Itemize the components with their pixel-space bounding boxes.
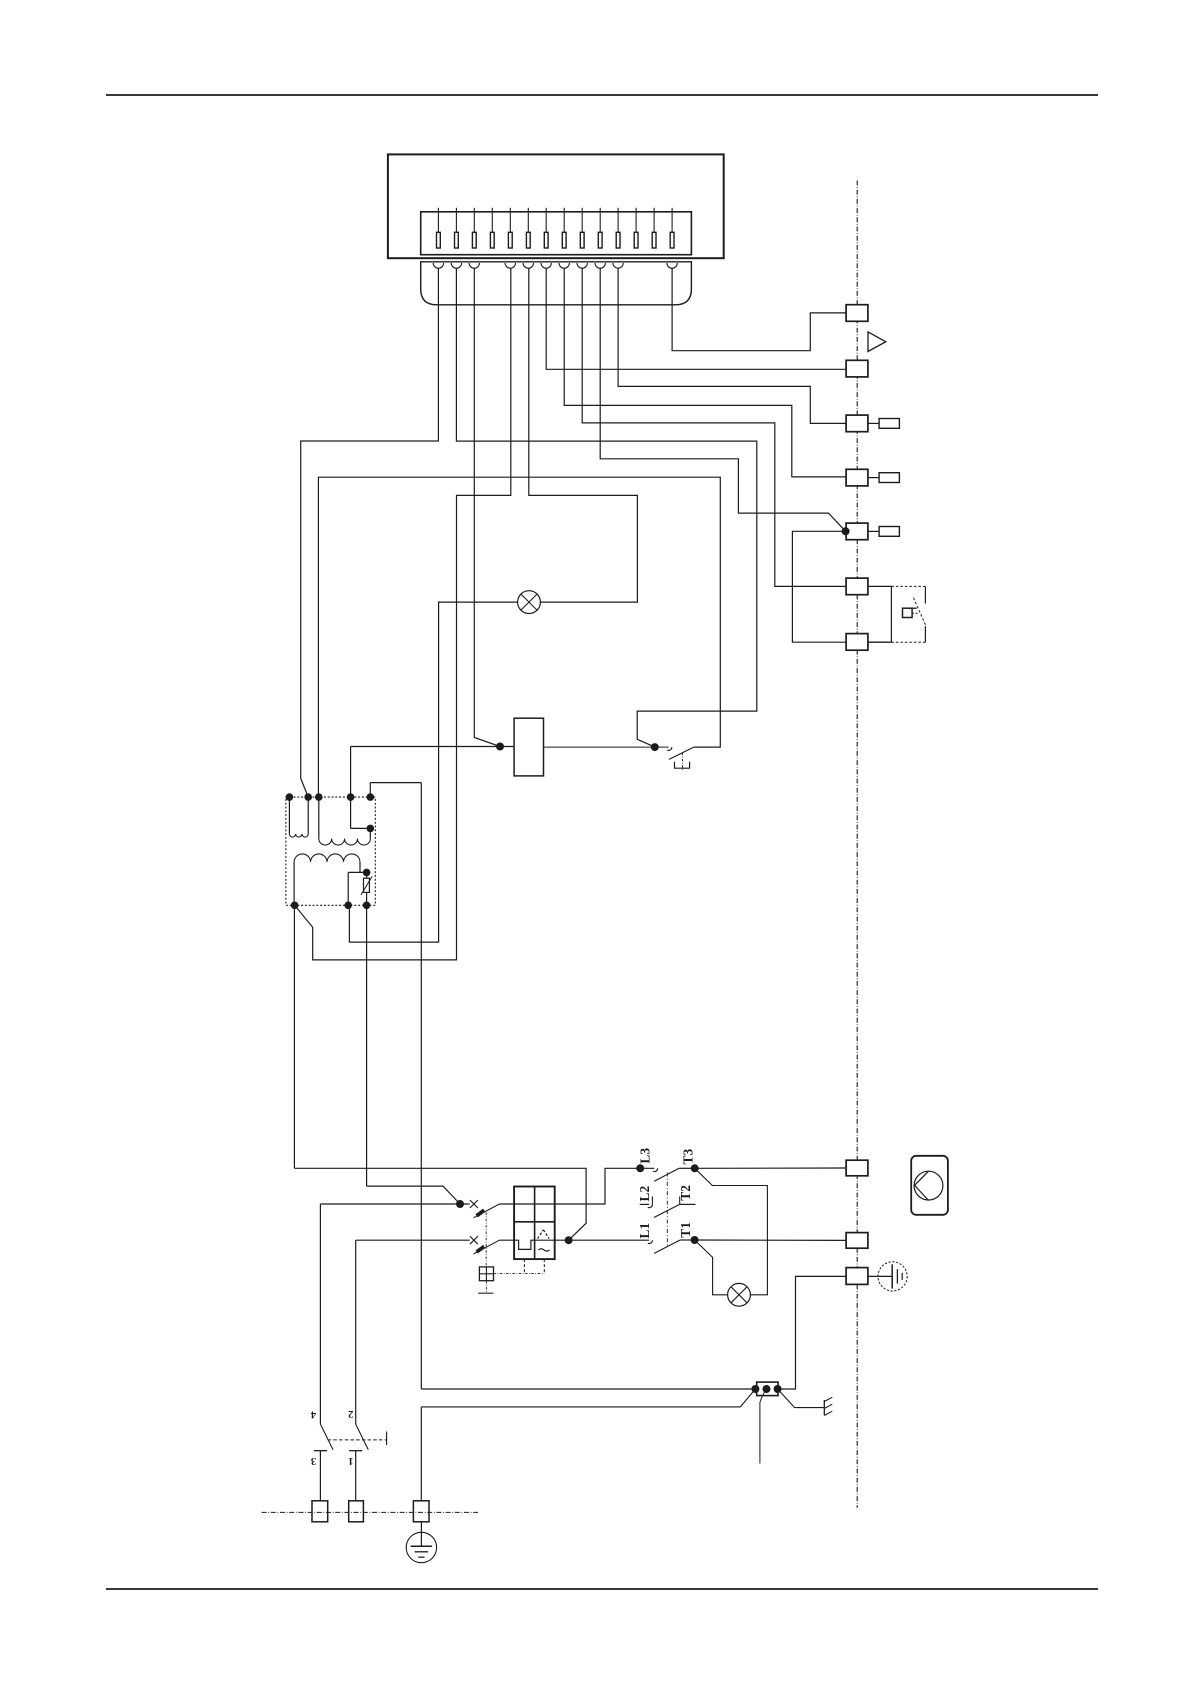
door plunger stem — [478, 1281, 493, 1294]
wire X5 to X7 link — [792, 531, 846, 642]
protective earth symbol (plug) — [406, 1532, 436, 1562]
thermal cutout pivot lead — [318, 477, 720, 797]
transformer primary winding (aux) — [289, 797, 308, 837]
transformer node (350.6,797.1) — [347, 793, 355, 801]
wire w6 (pin7 to terminal X2) — [546, 268, 845, 369]
plug axis line (dash-dot) — [262, 1511, 478, 1513]
wire lamp E1 return — [349, 602, 517, 942]
control box divider vertical — [534, 1187, 536, 1260]
terminal X3 — [846, 415, 868, 432]
plug terminal P2 — [349, 1501, 364, 1522]
svg-text:4: 4 — [310, 1409, 316, 1420]
wire w10 (pin11 to terminal X3) — [618, 268, 846, 423]
svg-text:L3: L3 — [637, 1148, 652, 1164]
transformer T1 dashed enclosure — [286, 797, 375, 905]
control box divider horizontal — [514, 1221, 555, 1223]
transformer bottom lead down — [293, 905, 295, 1168]
varistor RV1 — [361, 872, 372, 905]
interlock S4 lower lead — [355, 1451, 357, 1501]
wire w1 (pin1 to transformer primary) — [301, 268, 439, 797]
terminal strip pins 1-14 — [437, 208, 675, 248]
svg-text:L2: L2 — [637, 1185, 652, 1201]
wire w4 (pin5 to transformer return) — [295, 268, 511, 960]
microswitch S1 output to L3 — [499, 1168, 636, 1204]
contact L2 stub — [640, 1196, 653, 1207]
terminal X7 — [846, 634, 868, 651]
chassis ground — [824, 1397, 832, 1415]
varistor lead down — [366, 905, 368, 1186]
microswitch S2 contact cross — [470, 1236, 478, 1244]
transformer node (366.6,905.3) — [363, 902, 371, 910]
interlock S3 lower lead — [319, 1451, 321, 1501]
thermal cutout sensing cup — [675, 762, 690, 768]
transformer node (289.4,797.1) — [286, 793, 294, 801]
thermal cutout fixed contact — [655, 747, 672, 750]
junction dot relay feed — [496, 743, 504, 751]
door switch block — [757, 1382, 778, 1396]
wire w8 (pin9 to terminal X6) — [582, 268, 845, 586]
relay feed vertical — [350, 747, 352, 798]
wire T3 to terminal — [695, 1167, 846, 1169]
microswitch S2 blade — [474, 1240, 500, 1254]
transformer node (294.6,905.3) — [291, 902, 299, 910]
wire cook lamp to T1 — [695, 1240, 728, 1295]
terminal X5 — [846, 523, 868, 540]
pressure switch blade — [912, 598, 926, 627]
microswitch S2 line — [356, 1239, 470, 1241]
wire w3 (pin3 to relay node) — [474, 268, 500, 746]
interlock link (dashed) — [328, 1432, 387, 1446]
earth terminal lead — [868, 1275, 892, 1277]
wire T1 to terminal — [695, 1239, 847, 1241]
wire relay K1 to thermal cutout — [544, 746, 655, 748]
pressure switch dashed box — [891, 586, 925, 642]
door plunger symbol — [479, 1267, 493, 1281]
vertical bus to door switch — [420, 783, 422, 1389]
plug terminal PE — [413, 1501, 429, 1522]
contact L1 fixed lead hook — [648, 1240, 653, 1243]
fan motor M1 — [911, 1156, 948, 1215]
door switch probe stub — [760, 1389, 767, 1464]
transformer node (348.2,905.3) — [344, 902, 352, 910]
transformer primary winding (main) — [319, 797, 371, 845]
thermal cutout blade — [669, 747, 694, 759]
wire door switch to earth bar — [421, 1389, 755, 1407]
pressure switch actuator square — [903, 608, 917, 617]
transformer node (370.3,828.4) — [367, 825, 375, 833]
wire control box to L1 — [569, 1239, 650, 1241]
earth lead — [420, 1522, 422, 1546]
terminal X2 — [846, 360, 868, 377]
contact T1 junction dot — [691, 1236, 699, 1244]
svg-text:2: 2 — [348, 1408, 353, 1419]
wire w7 (pin8 to terminal X4) — [564, 268, 845, 477]
svg-text:T3: T3 — [681, 1148, 696, 1164]
panel boundary line (dash-dot) — [856, 181, 858, 1508]
interlock S4 blade — [356, 1424, 369, 1450]
transformer node (370.3,797.1) — [367, 793, 375, 801]
buzzer triangle — [868, 332, 886, 352]
door switch dot b — [763, 1385, 771, 1393]
transformer node (366.6,872.4) — [363, 869, 371, 877]
wire terminal X10 to door switch — [778, 1276, 846, 1389]
terminal strip CN1 outline — [421, 212, 692, 255]
control box sense leads (dashed) — [494, 1259, 545, 1273]
transformer secondary winding — [294, 854, 367, 905]
svg-text:1: 1 — [348, 1455, 353, 1466]
junction dot thermal cutout — [651, 743, 659, 751]
terminal X6 — [846, 578, 868, 595]
contact L2 blade — [654, 1204, 680, 1217]
door switch dot c — [774, 1385, 782, 1393]
junction dot at X5 — [842, 527, 850, 535]
spare tab X5a — [868, 527, 899, 537]
relay K1 coil — [514, 718, 543, 776]
wire w2 (pin2 to thermal-switch node) — [456, 268, 756, 747]
spare tab X4a — [868, 473, 899, 483]
interlock S3 fixed bar — [314, 1450, 327, 1452]
wire transformer to relay K1 — [351, 746, 514, 748]
interlock S3 blade — [320, 1424, 333, 1450]
microswitch S1 contact cross — [470, 1200, 478, 1208]
control box outline — [514, 1187, 555, 1260]
plug terminal P1 — [312, 1501, 328, 1522]
pressure switch leads — [868, 586, 892, 642]
terminal X4 — [846, 469, 868, 486]
cook lamp E2 — [728, 1283, 751, 1306]
contact T3 junction dot — [691, 1164, 699, 1172]
wire w5 (pin6 to oven lamp loop) — [529, 268, 638, 602]
contactor mechanical link (dash-dot) — [666, 1173, 668, 1246]
microswitch S1 blade — [474, 1204, 500, 1218]
wire door switch to chassis — [778, 1389, 824, 1408]
svg-text:T2: T2 — [678, 1185, 693, 1201]
terminal X8 (T3 row) — [846, 1160, 868, 1176]
junction dot microswitch line — [456, 1200, 464, 1208]
connector socket contacts — [433, 263, 677, 268]
thermal cutout link (dash-dot) — [682, 753, 684, 771]
microswitch mechanical link (dash-dot) — [485, 1213, 487, 1267]
svg-text:T1: T1 — [678, 1222, 693, 1238]
protective earth symbol (circle) — [878, 1262, 907, 1291]
wire w9 (pin10 to terminal X5) — [600, 268, 845, 531]
svg-text:3: 3 — [311, 1455, 316, 1466]
wire T3 to cook lamp — [695, 1168, 768, 1295]
transformer node (318.8,797.1) — [315, 793, 323, 801]
contact T1 lead — [680, 1239, 695, 1241]
contact T2 stub — [680, 1196, 696, 1204]
terminal X1 — [846, 305, 868, 322]
contact L3 junction dot — [636, 1164, 644, 1172]
controller board outline — [388, 154, 724, 258]
interlock S3 lead — [319, 1204, 321, 1424]
interlock S4 lead — [355, 1240, 357, 1424]
interlock S4 fixed bar — [349, 1450, 362, 1452]
spare tab X3a — [868, 419, 899, 429]
wire varistor branch to microswitch — [367, 1186, 460, 1204]
transformer node (308.2,797.1) — [304, 793, 312, 801]
terminal X10 (earth row) — [846, 1268, 868, 1285]
microswitch S2 output with sensor loop — [499, 1240, 568, 1249]
top border rule — [106, 94, 1098, 96]
terminal X9 (T1 row) — [846, 1233, 868, 1249]
connector housing — [421, 262, 692, 305]
wire transformer tap to vertical bus — [370, 783, 421, 798]
wire bus to door switch — [421, 1388, 755, 1390]
microswitch S1 line — [320, 1203, 469, 1205]
wire neutral to L1 junction — [294, 1168, 586, 1240]
contact T3 lead — [679, 1167, 695, 1169]
wire w11 (pin14 to terminal X1) — [672, 268, 846, 351]
contact L3 fixed lead — [636, 1168, 658, 1171]
door switch dot a — [751, 1385, 759, 1393]
oven lamp E1 — [518, 591, 541, 614]
vertical to terminal strip X12 — [420, 1407, 422, 1501]
contact L3 blade — [654, 1168, 679, 1181]
junction dot L1 line — [565, 1236, 573, 1244]
svg-text:L1: L1 — [637, 1222, 652, 1238]
contact L1 blade — [654, 1240, 680, 1253]
control box AC mark — [538, 1230, 550, 1251]
bottom border rule — [106, 1588, 1098, 1590]
